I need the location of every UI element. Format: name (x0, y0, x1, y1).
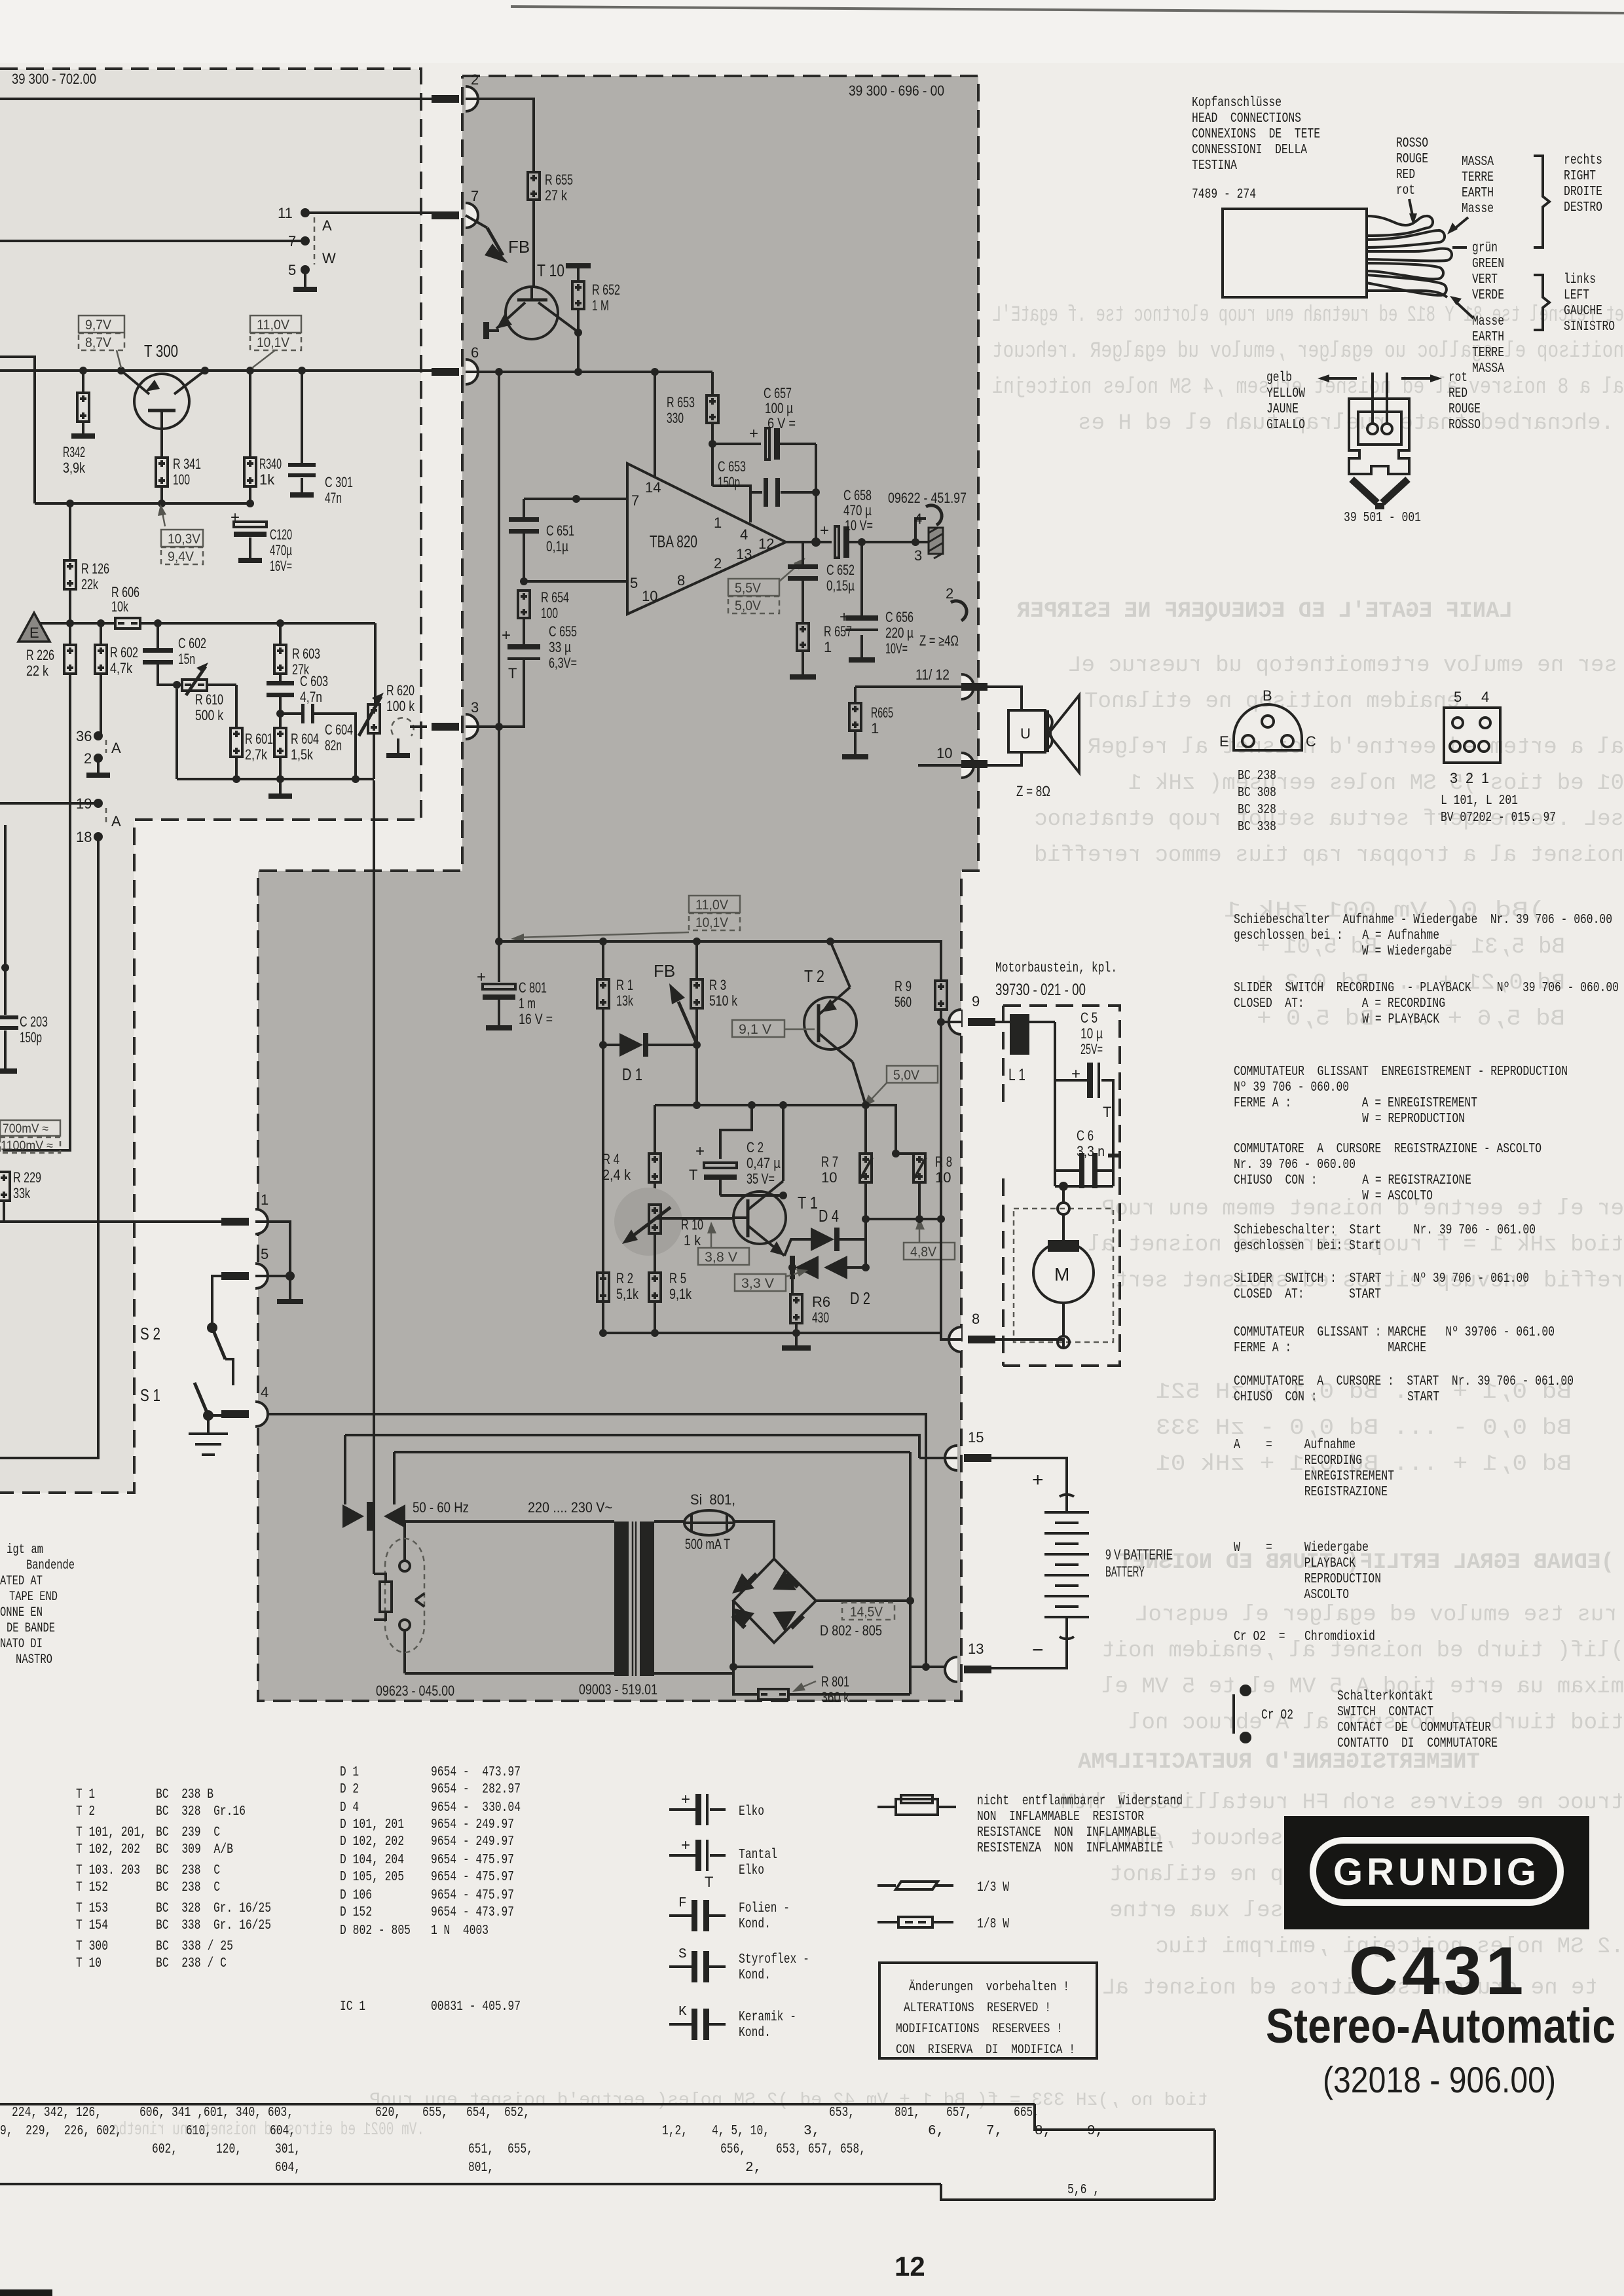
svg-text:EARTH: EARTH (1472, 330, 1504, 345)
svg-text:33 µ: 33 µ (549, 639, 571, 655)
E rail (29, 622, 375, 625)
verticals below (603, 1045, 697, 1333)
svg-text:0,1µ: 0,1µ (546, 538, 568, 555)
3,8V label (698, 1248, 749, 1265)
svg-text:Nr. 39 706 - 060.00: Nr. 39 706 - 060.00 (1234, 1157, 1356, 1173)
svg-text:R665: R665 (871, 704, 893, 721)
connector 8 (949, 1327, 961, 1352)
svg-text:R 1: R 1 (616, 977, 633, 993)
svg-text:RESISTANCE NON INFLAMMABLE: RESISTANCE NON INFLAMMABLE (977, 1825, 1156, 1840)
svg-text:4: 4 (914, 511, 922, 527)
svg-text:R 603: R 603 (292, 646, 320, 662)
svg-text:5: 5 (630, 575, 638, 591)
svg-text:3: 3 (914, 547, 922, 564)
resistor R229 (0, 1172, 10, 1201)
svg-text:JAUNE: JAUNE (1266, 402, 1299, 417)
svg-text:602,: 602, (152, 2142, 177, 2157)
svg-text:2: 2 (471, 71, 479, 88)
svg-text:Stereo-Automatic: Stereo-Automatic (1266, 1999, 1615, 2053)
wire top bus to connector 2 (0, 98, 433, 100)
svg-text:C 801: C 801 (519, 979, 547, 996)
svg-text:geschlossen bei : A = Aufnah: geschlossen bei : A = Aufnahme (1234, 928, 1439, 943)
svg-text:Schiebeschalter: Start Nr: Schiebeschalter: Start Nr. 39 706 - 061.… (1234, 1223, 1536, 1238)
svg-text:BC 238 B: BC 238 B (156, 1787, 213, 1802)
svg-text:.enaidem noitisop ne etilanoT: .enaidem noitisop ne etilanoT (1084, 689, 1473, 714)
svg-text:R 4: R 4 (602, 1151, 619, 1167)
svg-text:LANIF EGATE'L ED ECNEUQERF NE: LANIF EGATE'L ED ECNEUQERF NE ESIRPER (1016, 599, 1513, 624)
svg-text:MASSA: MASSA (1472, 361, 1504, 376)
svg-text:651,: 651, (468, 2142, 494, 2157)
loop bottom rail (177, 689, 374, 779)
svg-text:CON RISERVA DI MODIFICA !: CON RISERVA DI MODIFICA ! (896, 2043, 1075, 2058)
svg-text:9654 - 473.97: 9654 - 473.97 (431, 1765, 521, 1780)
svg-text:T: T (1103, 1104, 1111, 1120)
svg-text:665,: 665, (1014, 2105, 1039, 2121)
svg-text:657,: 657, (946, 2105, 972, 2121)
svg-text:4: 4 (740, 526, 748, 543)
svg-text:9654 - 282.97: 9654 - 282.97 (431, 1782, 521, 1797)
svg-text:470µ: 470µ (270, 542, 292, 558)
svg-text:1,2,: 1,2, (662, 2124, 688, 2139)
svg-text:4, 5, 10,: 4, 5, 10, (712, 2124, 769, 2139)
potentiometer R620 (374, 623, 377, 704)
svg-text:Folien -: Folien - (739, 1901, 790, 1916)
svg-text:10,1V: 10,1V (257, 335, 289, 350)
svg-text:1 k: 1 k (684, 1232, 701, 1248)
svg-text:100: 100 (541, 605, 558, 621)
svg-text:100: 100 (173, 471, 190, 488)
svg-text:FB: FB (654, 961, 675, 981)
connector 15 (945, 1446, 957, 1470)
long supply wire down to lower module (498, 372, 500, 941)
dc rail 3 (394, 1452, 910, 1504)
svg-text:Kond.: Kond. (739, 2026, 771, 2041)
voltage 11,0V/10,1V (250, 316, 301, 333)
svg-text:1100mV ≈: 1100mV ≈ (1, 1139, 53, 1153)
svg-text:T: T (705, 1874, 713, 1890)
svg-text:3,9k: 3,9k (63, 460, 86, 476)
svg-text:DESTRO: DESTRO (1564, 200, 1602, 215)
svg-text:470 µ: 470 µ (843, 502, 872, 519)
switch A/W bracket (314, 217, 316, 264)
svg-text:VERT: VERT (1472, 272, 1498, 287)
svg-text:C 5: C 5 (1080, 1010, 1098, 1026)
9,1V label (732, 1020, 784, 1037)
svg-text:rechts: rechts (1564, 153, 1602, 168)
svg-text:330: 330 (667, 410, 684, 426)
svg-text:C 658: C 658 (843, 487, 872, 503)
svg-text:22k: 22k (81, 576, 99, 592)
capacitor C203 (4, 825, 7, 1015)
connector 4 (912, 538, 919, 546)
svg-text:1,5k: 1,5k (291, 746, 314, 763)
svg-text:700mV ≈: 700mV ≈ (3, 1122, 48, 1136)
wire conn1 elbow ground (255, 1222, 290, 1276)
wire pin11 to connector 7 (305, 211, 433, 214)
resistor R342 (82, 371, 84, 393)
wire conn2 to R655 (466, 99, 534, 172)
svg-text:D 4: D 4 (340, 1800, 359, 1815)
connector 11/12 (961, 674, 974, 699)
svg-text:604,: 604, (275, 2160, 301, 2176)
svg-text:09622 - 451.97: 09622 - 451.97 (888, 490, 967, 506)
svg-text:BC 328 Gr. 16/25: BC 328 Gr. 16/25 (156, 1901, 271, 1916)
svg-text:U: U (1020, 725, 1031, 742)
svg-text:Masse: Masse (1462, 202, 1494, 217)
svg-text:4,7n: 4,7n (300, 689, 322, 705)
potentiometer R610 (182, 680, 207, 691)
svg-text:7: 7 (631, 492, 639, 509)
svg-text:T: T (689, 1167, 697, 1183)
svg-text:39 300 - 702.00: 39 300 - 702.00 (12, 71, 96, 87)
resistor R340 (249, 371, 251, 458)
CrO2 switch contact symbol (1240, 1685, 1251, 1696)
svg-text:M: M (1054, 1264, 1069, 1285)
svg-text:R 604: R 604 (291, 731, 319, 747)
svg-text:FB: FB (508, 237, 530, 257)
svg-text:PLAYBACK: PLAYBACK (1234, 1556, 1356, 1571)
svg-text:801,: 801, (895, 2105, 920, 2121)
svg-text:CHIUSO CON : A = REGIST: CHIUSO CON : A = REGISTRAZIONE (1234, 1173, 1471, 1188)
supply bus (466, 371, 712, 373)
svg-text:39 300 - 696 - 00: 39 300 - 696 - 00 (849, 82, 944, 99)
bus corner to R653 (711, 372, 714, 395)
box 39300-702.00 dashed border (0, 69, 421, 1493)
svg-text:3,3 V: 3,3 V (741, 1276, 774, 1291)
svg-text:2: 2 (714, 555, 722, 572)
connector 3 hatched (915, 541, 929, 543)
svg-text:BC 309 A/B: BC 309 A/B (156, 1842, 233, 1857)
svg-text:6 V =: 6 V = (767, 415, 796, 431)
svg-text:9 V BATTERIE: 9 V BATTERIE (1105, 1546, 1173, 1563)
svg-text:100 µ: 100 µ (765, 400, 793, 416)
svg-text:E: E (29, 625, 39, 641)
svg-text:A = Aufnahme: A = Aufnahme (1234, 1438, 1356, 1453)
svg-text:+: + (820, 522, 829, 539)
svg-text:R 2: R 2 (616, 1270, 633, 1286)
svg-text:D 2: D 2 (850, 1288, 870, 1308)
svg-text:D 102, 202: D 102, 202 (340, 1834, 404, 1850)
svg-text:BC 238 C: BC 238 C (156, 1863, 220, 1878)
svg-text:T 10: T 10 (537, 261, 564, 280)
connector 1 (255, 1209, 268, 1234)
svg-text:D 152: D 152 (340, 1905, 372, 1920)
node 4 rail (258, 1414, 926, 1667)
svg-text:T 1: T 1 (76, 1787, 95, 1802)
svg-text:10 V=: 10 V= (845, 517, 873, 534)
svg-text:1: 1 (714, 515, 722, 531)
svg-text:SLIDER SWITCH : START Nº: SLIDER SWITCH : START Nº 39 706 - 061.00 (1234, 1271, 1529, 1286)
svg-text:1/3 W: 1/3 W (977, 1880, 1009, 1895)
svg-text:SWITCH CONTACT: SWITCH CONTACT (1337, 1705, 1433, 1720)
electrolytic C657 (712, 443, 761, 445)
FB arrow at conn7 (466, 215, 487, 228)
svg-text:8: 8 (972, 1311, 980, 1327)
svg-text:NON INFLAMMABLE RESISTOR: NON INFLAMMABLE RESISTOR (977, 1810, 1144, 1825)
svg-text:13: 13 (736, 546, 752, 562)
svg-text:D 105, 205: D 105, 205 (340, 1870, 404, 1885)
svg-text:9,4V: 9,4V (168, 549, 194, 564)
svg-text:654,: 654, (466, 2105, 492, 2121)
voltage 11,0V/10,1V lower (689, 896, 740, 913)
svg-text:BC 328 Gr.16: BC 328 Gr.16 (156, 1804, 246, 1819)
svg-text:CONTACT DE COMMUTATEUR: CONTACT DE COMMUTATEUR (1337, 1721, 1491, 1736)
resistor R606 (115, 618, 140, 629)
svg-text:W = PLAYBACK: W = PLAYBACK (1234, 1012, 1439, 1027)
svg-text:−: − (1032, 1639, 1044, 1661)
svg-text:01 ed tios )5 SM noles eerusem: 01 ed tios )5 SM noles eerusem( zHk 1 (1128, 771, 1624, 796)
warning triangle E (18, 613, 50, 642)
svg-text:4,7k: 4,7k (110, 660, 133, 676)
resistor R601 (235, 685, 238, 728)
4,8V label (904, 1243, 955, 1260)
secondary wires (654, 1522, 774, 1673)
svg-text:10: 10 (821, 1169, 837, 1186)
svg-text:2,4 k: 2,4 k (602, 1167, 631, 1183)
svg-text:10k: 10k (111, 598, 129, 615)
svg-text:C 655: C 655 (549, 623, 577, 640)
svg-text:COMMUTATORE A CURSORE : STA: COMMUTATORE A CURSORE : START Nr. 39 706… (1234, 1374, 1574, 1389)
svg-text:L 101, L 201: L 101, L 201 (1441, 793, 1518, 809)
svg-text:R 602: R 602 (110, 644, 138, 661)
svg-text:R 601: R 601 (245, 731, 273, 747)
svg-text:C 652: C 652 (826, 562, 855, 578)
svg-text:al a 8 noisrev al ed noisnet e: al a 8 noisrev al ed noisnet erusem ,4 S… (992, 375, 1624, 400)
svg-text:Motorbaustein, kpl.: Motorbaustein, kpl. (995, 961, 1117, 976)
svg-text:9, 229, 226, 602,: 9, 229, 226, 602, (0, 2124, 122, 2139)
connector 4 (255, 1402, 268, 1427)
svg-text:R 652: R 652 (592, 282, 620, 298)
svg-text:2,: 2, (745, 2160, 762, 2176)
resistor R603 (279, 623, 282, 645)
svg-text:Kopfanschlüsse: Kopfanschlüsse (1192, 96, 1282, 111)
svg-text:FERME A : A = ENREGI: FERME A : A = ENREGISTREMENT (1234, 1096, 1477, 1111)
svg-text:D 1: D 1 (340, 1765, 359, 1780)
svg-text:10V=: 10V= (885, 640, 908, 657)
svg-text:Cr O2 = Chromdioxid: Cr O2 = Chromdioxid (1234, 1630, 1375, 1645)
svg-text:4: 4 (261, 1384, 268, 1400)
svg-text:MODIFICATIONS RESERVEES !: MODIFICATIONS RESERVEES ! (896, 2022, 1063, 2037)
svg-text:T 103. 203: T 103. 203 (76, 1863, 140, 1878)
grey module region fill (258, 76, 978, 1701)
resistor R5 (654, 1264, 656, 1273)
svg-text:120,: 120, (216, 2142, 242, 2157)
svg-text:653,: 653, (829, 2105, 855, 2121)
svg-text:0,47 µ: 0,47 µ (747, 1155, 781, 1171)
svg-text:6,: 6, (928, 2124, 944, 2139)
svg-text:224, 342, 126,: 224, 342, 126, (12, 2105, 101, 2121)
voltage 9,7V/8,7V (79, 316, 124, 333)
svg-text:TAPE END: TAPE END (9, 1590, 58, 1605)
svg-text:500 k: 500 k (195, 707, 224, 723)
bridge rectifier D802-805 (733, 1559, 816, 1643)
svg-text:Z = 8Ω: Z = 8Ω (1016, 783, 1050, 799)
svg-text:C 651: C 651 (546, 522, 574, 539)
svg-text:RESISTENZA NON INFLAMMABILE: RESISTENZA NON INFLAMMABILE (977, 1841, 1163, 1856)
svg-text:R 341: R 341 (173, 456, 201, 472)
svg-text:R 126: R 126 (81, 560, 109, 577)
svg-text:7: 7 (288, 233, 296, 249)
svg-text:RECORDING: RECORDING (1234, 1453, 1362, 1468)
svg-text:610,: 610, (186, 2124, 212, 2139)
svg-text:R340: R340 (259, 456, 282, 472)
wire connector 5 elbow to S2 (212, 1276, 221, 1324)
svg-text:T 153: T 153 (76, 1901, 108, 1916)
svg-text:22 k: 22 k (26, 663, 49, 679)
svg-text:2: 2 (946, 585, 953, 602)
resistor R7 (864, 1105, 867, 1154)
resistor R665 (855, 687, 961, 703)
svg-text:TERRE: TERRE (1462, 170, 1494, 185)
svg-text:801,: 801, (468, 2160, 494, 2176)
svg-text:Nº 39 706 - 060.00: Nº 39 706 - 060.00 (1234, 1080, 1349, 1095)
svg-text:R342: R342 (63, 444, 85, 460)
voltage 700mV/1100mV (0, 1120, 60, 1136)
svg-text:T 154: T 154 (76, 1918, 108, 1933)
svg-text:T 102, 202: T 102, 202 (76, 1842, 140, 1857)
resistor R1 (602, 941, 604, 979)
svg-text:220 .... 230 V~: 220 .... 230 V~ (528, 1499, 612, 1516)
svg-text:35 V=: 35 V= (747, 1171, 775, 1187)
svg-text:grün: grün (1472, 241, 1498, 256)
resistor R9 (935, 981, 947, 1010)
capacitor C603 (279, 674, 282, 681)
svg-text:ser ne emulov ertemoitnetop ud: ser ne emulov ertemoitnetop ud ruesruc e… (1068, 653, 1617, 678)
svg-text:R 229: R 229 (13, 1169, 41, 1186)
svg-text:1/8 W: 1/8 W (977, 1917, 1009, 1932)
svg-text:CLOSED AT: A = RECORD: CLOSED AT: A = RECORDING (1234, 996, 1445, 1011)
svg-text:+: + (749, 425, 758, 443)
svg-text:NASTRO: NASTRO (16, 1652, 52, 1667)
svg-text:D 2: D 2 (340, 1782, 359, 1797)
connector 3 (466, 714, 478, 739)
svg-text:Elko: Elko (739, 1863, 764, 1878)
svg-text:LEFT: LEFT (1564, 288, 1589, 303)
svg-text:360 k: 360 k (821, 1689, 850, 1705)
resistor R801 (733, 1667, 758, 1694)
svg-text:560: 560 (895, 994, 912, 1010)
svg-text:.ehcnarbed tnate ruelrap-tuah: .ehcnarbed tnate ruelrap-tuah el ed H es (1078, 411, 1614, 436)
svg-text:BC 338: BC 338 (1238, 820, 1276, 835)
svg-text:9,1k: 9,1k (669, 1286, 692, 1302)
svg-text:9654 - 475.97: 9654 - 475.97 (431, 1888, 514, 1903)
svg-text:Cr O2: Cr O2 (1261, 1708, 1293, 1723)
svg-text:+: + (231, 509, 240, 526)
svg-text:D 802 - 805: D 802 - 805 (820, 1622, 882, 1639)
electrolytic C801 (498, 941, 500, 982)
svg-text:5,0V: 5,0V (735, 598, 761, 613)
svg-text:13k: 13k (616, 993, 634, 1009)
svg-text:D 4: D 4 (819, 1206, 839, 1226)
connector body (1349, 399, 1409, 474)
svg-text:BC 338 Gr. 16/25: BC 338 Gr. 16/25 (156, 1918, 271, 1933)
svg-text:R 7: R 7 (821, 1154, 838, 1170)
svg-text:C431: C431 (1349, 1933, 1528, 2009)
svg-text:19: 19 (76, 795, 92, 812)
svg-text:L 1: L 1 (1008, 1066, 1025, 1084)
capacitor C651 (509, 517, 539, 522)
svg-text:Kond.: Kond. (739, 1917, 771, 1932)
svg-text:R 654: R 654 (541, 589, 569, 606)
svg-text:C 602: C 602 (178, 635, 206, 651)
svg-text:nicht entflammbarer Widersta: nicht entflammbarer Widerstand (977, 1794, 1183, 1809)
dc rail 2 (345, 1435, 919, 1504)
diode D4 (784, 1239, 811, 1256)
svg-text:ONNE EN: ONNE EN (0, 1605, 43, 1620)
bracket links (1534, 275, 1549, 330)
svg-text:5,6 ,: 5,6 , (1067, 2183, 1099, 2198)
svg-text:noitisop el egalloc uo egalger: noitisop el egalloc uo egalger ,emulov u… (992, 339, 1624, 364)
resistor R652 (566, 263, 591, 268)
svg-text:links: links (1564, 272, 1596, 287)
svg-text:W: W (322, 250, 336, 266)
svg-text:655,: 655, (507, 2142, 533, 2157)
svg-text:HEAD CONNECTIONS: HEAD CONNECTIONS (1192, 111, 1301, 126)
svg-text:1k: 1k (259, 471, 275, 488)
svg-text:39 501 - 001: 39 501 - 001 (1344, 511, 1421, 526)
svg-text:9654 - 473.97: 9654 - 473.97 (431, 1905, 514, 1920)
svg-text:18: 18 (76, 829, 92, 845)
svg-text:tiod no ,)zH 333 = f( Bd 1 ± V: tiod no ,)zH 333 = f( Bd 1 ± Vm 42 ed )2… (369, 2090, 1208, 2111)
main rail (0, 369, 433, 372)
svg-text:Elko: Elko (739, 1804, 764, 1819)
svg-text:ENREGISTREMENT: ENREGISTREMENT (1234, 1469, 1394, 1484)
svg-text:A: A (322, 217, 332, 234)
svg-text:9654 - 249.97: 9654 - 249.97 (431, 1834, 514, 1850)
svg-text:W = Wiedergabe: W = Wiedergabe (1234, 1540, 1369, 1556)
svg-text:301,: 301, (275, 2142, 301, 2157)
bridge outputs (816, 1599, 910, 1602)
lower connector 39501-001 (1373, 373, 1387, 424)
op-amp TBA 820 (627, 464, 786, 614)
connector 10 (961, 753, 974, 778)
capacitor C653 (712, 486, 762, 492)
svg-text:R 653: R 653 (667, 394, 695, 410)
resistor R8 (918, 1152, 921, 1155)
svg-text:ASCOLTO: ASCOLTO (1234, 1588, 1349, 1603)
svg-text:R 655: R 655 (545, 172, 573, 188)
lighter top scan band (0, 0, 1624, 63)
svg-text:2,7k: 2,7k (245, 746, 268, 763)
svg-text:500 mA T: 500 mA T (685, 1536, 730, 1552)
bottom left scan mark (0, 2289, 52, 2296)
motor M (1014, 1209, 1113, 1342)
svg-text:9,7V: 9,7V (85, 318, 111, 333)
svg-text:IC 1: IC 1 (340, 1999, 365, 2014)
svg-text:CONTATTO DI COMMUTATORE: CONTATTO DI COMMUTATORE (1337, 1736, 1498, 1751)
wire conn8 to motor bottom (987, 1339, 1063, 1348)
svg-text:9654 - 475.97: 9654 - 475.97 (431, 1870, 514, 1885)
svg-text:S 2: S 2 (140, 1324, 160, 1343)
svg-text:16 V =: 16 V = (519, 1011, 553, 1027)
svg-text:C: C (1306, 733, 1316, 750)
svg-text:1: 1 (824, 639, 832, 655)
ground C655 (523, 714, 525, 716)
svg-text:E: E (1219, 733, 1229, 750)
svg-text:rus tse emulov ed egalger el e: rus tse emulov ed egalger el euqsroL (1135, 1603, 1617, 1628)
voltage 10,3V/9,4V (161, 530, 203, 547)
svg-text:CONNEXIONS DE TETE: CONNEXIONS DE TETE (1192, 127, 1320, 142)
svg-text:W = ASCOLTO: W = ASCOLTO (1234, 1189, 1433, 1204)
svg-text:2: 2 (84, 750, 92, 767)
svg-text:RED: RED (1396, 168, 1415, 183)
svg-text:NATO DI: NATO DI (0, 1637, 43, 1652)
svg-text:F: F (678, 1896, 687, 1911)
svg-text:COMMUTATORE A CURSORE REGIS: COMMUTATORE A CURSORE REGISTRAZIONE - AS… (1234, 1142, 1541, 1157)
svg-text:9: 9 (972, 993, 980, 1010)
svg-text:et reicnel tse 81 Y 812 ed rue: et reicnel tse 81 Y 812 ed ruetnah enu r… (992, 303, 1624, 328)
mains lamp (385, 1539, 424, 1652)
